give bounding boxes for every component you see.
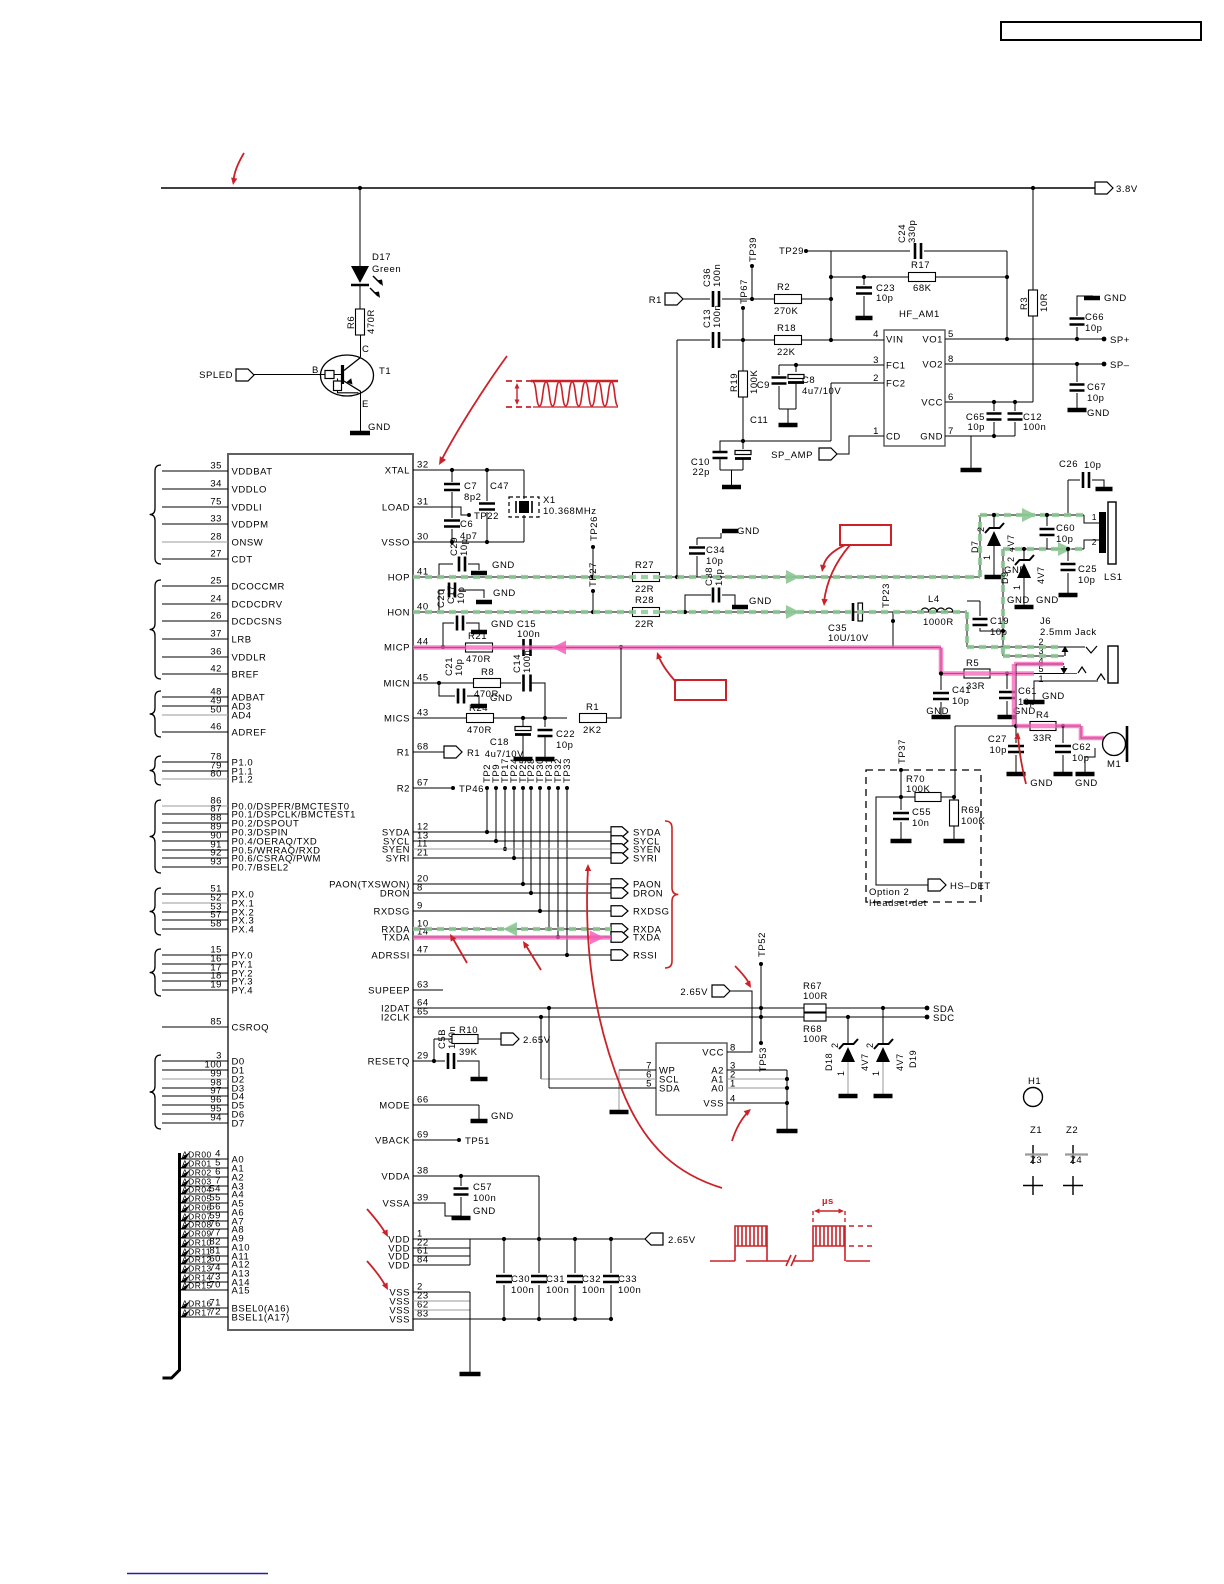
connector SYEN [611, 844, 628, 855]
svg-text:FC1: FC1 [886, 361, 906, 372]
red callout box micp [675, 680, 726, 700]
pin 86 P0.0/DSPFR/BMCTEST0 [162, 805, 228, 807]
svg-text:R4: R4 [1036, 710, 1049, 721]
pin 78 P1.0 [162, 761, 228, 763]
svg-text:C6: C6 [460, 519, 473, 530]
svg-text:D19: D19 [908, 1050, 918, 1068]
wire PAON output [413, 883, 611, 885]
svg-text:R24: R24 [469, 703, 488, 714]
svg-text:DCDCDRV: DCDCDRV [232, 600, 283, 611]
pin63 SUPEEP wire [413, 989, 443, 991]
svg-text:TXDA: TXDA [382, 933, 410, 944]
pin 93 P0.7/BSEL2 [162, 866, 228, 868]
red arrow sine to XTAL pin [441, 356, 507, 461]
green arrow speaker line 2 [1058, 542, 1072, 556]
pin 49 AD3 [162, 705, 228, 707]
svg-text:VBACK: VBACK [375, 1136, 410, 1147]
pin 67 wire TP46 [413, 787, 453, 789]
red arrow to MICP [658, 655, 676, 682]
svg-text:VO1: VO1 [922, 335, 943, 346]
svg-text:19: 19 [210, 980, 222, 991]
svg-text:TP22: TP22 [474, 511, 499, 522]
svg-text:DCOCCMR: DCOCCMR [232, 582, 285, 593]
capacitor C62 10p [1062, 726, 1064, 743]
svg-text:RESETQ: RESETQ [368, 1057, 410, 1068]
svg-text:33R: 33R [1033, 733, 1052, 744]
svg-text:SYRI: SYRI [633, 854, 657, 865]
svg-text:R1: R1 [397, 748, 410, 759]
wire feedback riser to VO1 [1006, 251, 1008, 339]
brace DCDC pin group [150, 580, 161, 679]
svg-text:C57: C57 [473, 1182, 492, 1193]
crystal X1 10.368MHz [523, 470, 525, 499]
ground below T1 [350, 431, 370, 436]
svg-text:100n: 100n [522, 650, 533, 673]
wire 2.65V to VCC [727, 991, 752, 1052]
brace AD pin group [150, 691, 161, 737]
svg-text:SP–: SP– [1110, 360, 1130, 371]
svg-text:2: 2 [830, 1042, 840, 1048]
pin 18 PY.3 [162, 980, 228, 982]
brace PX pin group [150, 888, 161, 935]
svg-text:36: 36 [210, 647, 222, 658]
capacitor C6 4p7 [451, 507, 453, 518]
capacitor C29 10p [439, 564, 453, 577]
resistor R3 10R [1032, 188, 1034, 290]
svg-text:39K: 39K [459, 1047, 478, 1058]
pin 72 BSEL1(A17) / net ADR17 [181, 1316, 228, 1318]
wire CD to SP_AMP [837, 436, 884, 454]
node HOP-C13 junction [675, 575, 679, 579]
IC main baseband chip [228, 454, 413, 1330]
pin 77 A9 / net ADR09 [181, 1237, 228, 1239]
svg-text:TP33: TP33 [562, 758, 573, 783]
svg-text:VSSO: VSSO [381, 538, 410, 549]
svg-text:100n: 100n [712, 264, 723, 287]
svg-text:2: 2 [976, 526, 986, 532]
svg-text:D7: D7 [970, 540, 980, 553]
svg-text:TP27: TP27 [588, 562, 599, 587]
svg-text:100n: 100n [712, 305, 723, 328]
svg-text:GND: GND [1075, 778, 1098, 789]
wire FC1 to C9 C8 [779, 364, 884, 366]
wire TXDA output [413, 936, 611, 938]
svg-text:R27: R27 [635, 560, 654, 571]
wire to HS-DET [876, 797, 928, 885]
svg-text:PY.4: PY.4 [232, 986, 254, 997]
svg-text:GND: GND [493, 588, 516, 599]
resistor R10 39K [433, 1039, 435, 1061]
capacitor C41 10p [939, 671, 943, 675]
resistor R70 100K [901, 796, 915, 798]
svg-text:BREF: BREF [232, 670, 260, 681]
node rail-LED junction [358, 186, 362, 190]
red arrow to VDD pins [367, 1209, 386, 1234]
svg-text:6: 6 [948, 392, 954, 403]
highlight MICP pink [413, 645, 941, 650]
pin 3 D0 [162, 1060, 228, 1062]
svg-text:470R: 470R [466, 654, 491, 665]
svg-text:R19: R19 [729, 373, 740, 392]
pin 15 PY.0 [162, 954, 228, 956]
capacitor C9 [778, 365, 780, 375]
wire 3.8V power rail [161, 187, 1095, 189]
LED D17 Green [351, 266, 369, 283]
wire SYDA output [413, 831, 611, 833]
node MICP-R1 junction [619, 645, 623, 649]
svg-text:1: 1 [1092, 512, 1097, 522]
svg-text:DRON: DRON [633, 889, 663, 900]
svg-text:TP37: TP37 [897, 739, 908, 764]
green arrow on HON [786, 605, 800, 619]
svg-text:D9: D9 [1000, 571, 1010, 584]
svg-text:XTAL: XTAL [385, 466, 410, 477]
svg-text:ONSW: ONSW [232, 538, 264, 549]
wire C14 to MICS [531, 683, 545, 718]
wire pin45 MICN [413, 682, 521, 684]
connector HS-DET [928, 879, 946, 891]
svg-text:2: 2 [1006, 556, 1016, 562]
svg-text:GND: GND [491, 619, 514, 630]
pin 96 D5 [162, 1104, 228, 1106]
node C18 junction [521, 716, 525, 720]
svg-text:C27: C27 [988, 734, 1007, 745]
svg-text:10R: 10R [1039, 293, 1050, 312]
svg-text:MODE: MODE [379, 1101, 410, 1112]
blue footer underline [127, 1573, 268, 1575]
svg-text:ADREF: ADREF [232, 728, 267, 739]
svg-text:VDDLR: VDDLR [232, 653, 267, 664]
svg-text:26: 26 [210, 611, 222, 622]
svg-text:2.65V: 2.65V [523, 1035, 551, 1046]
svg-text:TP23: TP23 [881, 583, 892, 608]
svg-text:Z1: Z1 [1030, 1125, 1042, 1136]
pin 79 P1.1 [162, 770, 228, 772]
pin 4 A0 / net ADR00 [181, 1158, 228, 1160]
svg-text:C22: C22 [556, 729, 575, 740]
svg-text:VDDA: VDDA [381, 1172, 410, 1183]
pin 68 wire and connector R1 [413, 751, 444, 753]
brace P0 pin group [150, 800, 161, 873]
svg-text:47: 47 [417, 945, 429, 956]
highlight green speaker line 2 [1003, 549, 1084, 656]
svg-text:C61: C61 [1018, 686, 1037, 697]
capacitor C30 100n [503, 1239, 505, 1273]
svg-text:Z2: Z2 [1066, 1125, 1078, 1136]
svg-text:100n: 100n [546, 1285, 569, 1296]
svg-text:10p: 10p [876, 293, 894, 304]
connector 3.8V [1095, 182, 1113, 194]
wire pin38 VDDA [413, 1175, 539, 1177]
connector SP_AMP [819, 448, 837, 460]
svg-text:24: 24 [210, 594, 222, 605]
svg-text:I2CLK: I2CLK [381, 1013, 410, 1024]
svg-text:80: 80 [210, 769, 222, 780]
svg-text:1: 1 [871, 1070, 881, 1076]
svg-text:GND: GND [1087, 408, 1110, 419]
svg-text:10p: 10p [1084, 460, 1102, 471]
wire pin39 VSSA [413, 1203, 461, 1216]
svg-text:P0.7/BSEL2: P0.7/BSEL2 [232, 863, 289, 874]
wire A0 [727, 1087, 787, 1089]
svg-text:GND: GND [491, 1111, 514, 1122]
svg-text:4V7: 4V7 [1036, 566, 1046, 584]
svg-text:C33: C33 [618, 1274, 637, 1285]
svg-text:30: 30 [417, 532, 429, 543]
svg-text:R1: R1 [649, 295, 662, 306]
svg-text:C30: C30 [511, 1274, 530, 1285]
wire SDA riser [548, 1008, 550, 1088]
resistor R17 68K [831, 276, 909, 278]
wire I2CLK/SDC [413, 1016, 927, 1018]
pin 51 PX.0 [162, 893, 228, 895]
svg-text:GND: GND [473, 1206, 496, 1217]
resistor R27 22R [633, 573, 660, 582]
pin 74 A13 / net ADR13 [181, 1272, 228, 1274]
capacitor C19 10p [967, 600, 980, 602]
svg-text:GND: GND [1007, 595, 1030, 606]
svg-text:D17: D17 [372, 252, 391, 263]
red arrow to power rail [234, 153, 245, 181]
pin 25 DCOCCMR [162, 585, 228, 587]
svg-text:22R: 22R [635, 584, 654, 595]
wire MICP to R5 [940, 648, 942, 674]
pin 89 P0.3/DSPIN [162, 831, 228, 833]
svg-text:C11: C11 [750, 415, 768, 426]
svg-text:42: 42 [210, 664, 222, 675]
fiducial cross right [1063, 1176, 1083, 1195]
pin 42 BREF [162, 673, 228, 675]
svg-text:50: 50 [210, 705, 222, 716]
svg-text:C19: C19 [990, 616, 1009, 627]
pin 70 A15 / net ADR15 [181, 1289, 228, 1291]
wire SPLED to T1 base [254, 374, 325, 376]
svg-text:1: 1 [982, 554, 992, 560]
brace P1 pin group [150, 756, 161, 785]
svg-text:29: 29 [417, 1051, 429, 1062]
svg-text:68K: 68K [913, 283, 932, 294]
connector RXDSG [611, 906, 628, 917]
svg-text:63: 63 [417, 980, 429, 991]
connector RXDA [611, 924, 628, 935]
wire VSS rail [470, 1318, 611, 1320]
capacitor C24 330p [915, 243, 921, 259]
pin 5 A1 / net ADR01 [181, 1167, 228, 1169]
svg-text:7: 7 [948, 426, 954, 437]
svg-text:10p: 10p [967, 422, 985, 433]
svg-text:P1.2: P1.2 [232, 775, 254, 786]
svg-text:85: 85 [210, 1017, 222, 1028]
highlight green HON extension [965, 612, 969, 647]
svg-text:VDDPM: VDDPM [232, 520, 269, 531]
svg-text:VIN: VIN [886, 335, 904, 346]
resistor R19 100K [742, 340, 744, 371]
svg-text:470R: 470R [467, 725, 492, 736]
svg-text:C32: C32 [582, 1274, 601, 1285]
svg-text:32: 32 [417, 460, 429, 471]
svg-text:GND: GND [492, 560, 515, 571]
svg-text:C66: C66 [1085, 312, 1104, 323]
pin 90 P0.4/OERAQ/TXD [162, 840, 228, 842]
resistor R4 33R [1030, 722, 1056, 731]
capacitor C10 22p [720, 441, 743, 451]
svg-text:10p: 10p [556, 740, 574, 751]
pin 97 D4 [162, 1095, 228, 1097]
svg-text:3.8V: 3.8V [1116, 184, 1138, 195]
svg-text:D18: D18 [824, 1053, 834, 1071]
connector 2.65V VDD rail [645, 1233, 663, 1245]
transistor T1 [321, 355, 374, 396]
svg-text:R2: R2 [777, 282, 790, 293]
wire pin29 RESETQ [413, 1060, 445, 1062]
wire pin66 MODE to ground [413, 1104, 479, 1106]
pin 87 P0.1/DSPCLK/BMCTEST1 [162, 813, 228, 815]
capacitor C36 100n [713, 291, 719, 307]
svg-text:AD4: AD4 [232, 711, 252, 722]
svg-text:R17: R17 [911, 260, 930, 271]
svg-text:TP51: TP51 [465, 1136, 490, 1147]
svg-text:2.5mm Jack: 2.5mm Jack [1040, 627, 1097, 638]
wire T1 emitter to ground [360, 391, 362, 431]
jack pin2 wire [967, 646, 1085, 648]
highlight pink R4 path [1016, 726, 1104, 738]
resistor R21 470R [466, 643, 493, 652]
svg-text:100R: 100R [803, 1034, 828, 1045]
pin 35 VDDBAT [162, 470, 228, 472]
capacitor C47 [486, 470, 488, 501]
svg-text:FC2: FC2 [886, 379, 906, 390]
wire rail to D17 [359, 188, 361, 266]
svg-text:R28: R28 [635, 595, 654, 606]
title block box [1001, 22, 1201, 40]
svg-text:RXDSG: RXDSG [633, 907, 670, 918]
capacitor C38 10p [683, 610, 687, 614]
wire A2 A1 A0 VSS common to ground [786, 1070, 788, 1129]
capacitor C66 10p [1076, 327, 1078, 339]
resistor R8 470R [474, 679, 501, 688]
svg-text:C47: C47 [490, 481, 509, 492]
svg-text:22R: 22R [635, 619, 654, 630]
svg-text:C25: C25 [1078, 564, 1097, 575]
pin 54 A4 / net ADR04 [181, 1193, 228, 1195]
capacitor C61 10p [1006, 674, 1008, 689]
wire pin43 MICS [413, 717, 567, 719]
svg-text:ADRSSI: ADRSSI [371, 951, 410, 962]
svg-text:330p: 330p [907, 220, 918, 243]
resistor R69 100K [952, 795, 956, 799]
svg-text:J6: J6 [1040, 616, 1051, 627]
pin 94 D7 [162, 1122, 228, 1124]
test point TP53 [759, 1041, 763, 1045]
svg-text:R5: R5 [966, 658, 979, 669]
wire C36 to R2 [722, 298, 775, 300]
svg-text:TP53: TP53 [758, 1047, 769, 1072]
red pulse waveform [710, 1260, 735, 1262]
wire RXDA output [413, 928, 611, 930]
option2 dashed box [866, 770, 981, 902]
svg-text:100K: 100K [906, 784, 931, 795]
capacitor C33 100n [610, 1239, 612, 1273]
resistor R5 33R [964, 669, 990, 678]
wire VCC pin [945, 401, 1033, 403]
svg-text:4V7: 4V7 [895, 1053, 905, 1071]
svg-text:VDDBAT: VDDBAT [232, 467, 273, 478]
wire SCL riser [540, 1017, 542, 1079]
pin 71 BSEL0(A16) / net ADR16 [181, 1307, 228, 1309]
capacitor C55 10n [900, 797, 902, 810]
svg-text:C8: C8 [802, 375, 815, 386]
svg-text:C55: C55 [912, 807, 931, 818]
resistor R28 22R [633, 608, 660, 617]
wire RXDSG output [413, 910, 611, 912]
wire FC2 branch [831, 382, 884, 384]
zener diode D18 4V7 [846, 1015, 850, 1019]
wire R3 to VCC node [1032, 316, 1034, 402]
svg-text:94: 94 [210, 1113, 222, 1124]
wire A2 [727, 1069, 787, 1071]
capacitor C12 100n [1014, 402, 1016, 411]
svg-text:C34: C34 [706, 545, 725, 556]
svg-text:100n: 100n [618, 1285, 641, 1296]
highlight green jack rows [967, 647, 1063, 656]
pin 48 ADBAT [162, 696, 228, 698]
svg-text:R3: R3 [1019, 297, 1030, 310]
brace D0-D7 pin group [150, 1055, 161, 1129]
svg-text:4V7: 4V7 [860, 1053, 870, 1071]
svg-text:A0: A0 [711, 1084, 724, 1095]
pin 26 DCDCSNS [162, 620, 228, 622]
pin 7 A3 / net ADR03 [181, 1185, 228, 1187]
svg-text:R10: R10 [459, 1025, 478, 1036]
wire R2 to VIN node [801, 298, 831, 300]
svg-text:VDDLO: VDDLO [232, 485, 267, 496]
net SDC [925, 1015, 930, 1020]
svg-text:67: 67 [417, 778, 429, 789]
jack contact arrow up [1064, 651, 1066, 656]
svg-text:T1: T1 [379, 366, 391, 377]
capacitor C35 10U/10V [852, 603, 855, 621]
red dashed continuation [849, 1226, 872, 1246]
wire HON extension down [966, 612, 968, 647]
speaker LS1 [1084, 515, 1099, 549]
pin 24 DCDCDRV [162, 603, 228, 605]
svg-text:3: 3 [873, 355, 879, 366]
wire C13 branch down to HOP [676, 340, 678, 577]
svg-text:10U/10V: 10U/10V [828, 633, 869, 644]
wire VO2 to SP- [945, 363, 1104, 365]
connector RSSI [611, 950, 628, 961]
wire VSS pin4 [727, 1102, 787, 1104]
svg-text:39: 39 [417, 1193, 429, 1204]
brace VDD pin group [150, 465, 161, 564]
pin 57 PX.3 [162, 919, 228, 921]
highlight HOP green dashed [413, 575, 967, 579]
resistor R2 270K [775, 295, 802, 304]
wire WP to ground [619, 1069, 656, 1071]
svg-text:35: 35 [210, 461, 222, 472]
svg-text:2.65V: 2.65V [680, 987, 708, 998]
wire speaker line 2 [1003, 548, 1084, 550]
svg-text:TP46: TP46 [459, 784, 484, 795]
zener diode D7 4V7 [992, 513, 996, 517]
pin 58 PX.4 [162, 928, 228, 930]
resistor R68 100R [804, 1013, 826, 1021]
svg-text:R18: R18 [777, 323, 796, 334]
wire pink vertical to R4 [1015, 664, 1017, 726]
svg-text:100n: 100n [517, 629, 540, 640]
capacitor C13 100n [713, 332, 719, 348]
wire R18 to VIN [801, 339, 884, 341]
